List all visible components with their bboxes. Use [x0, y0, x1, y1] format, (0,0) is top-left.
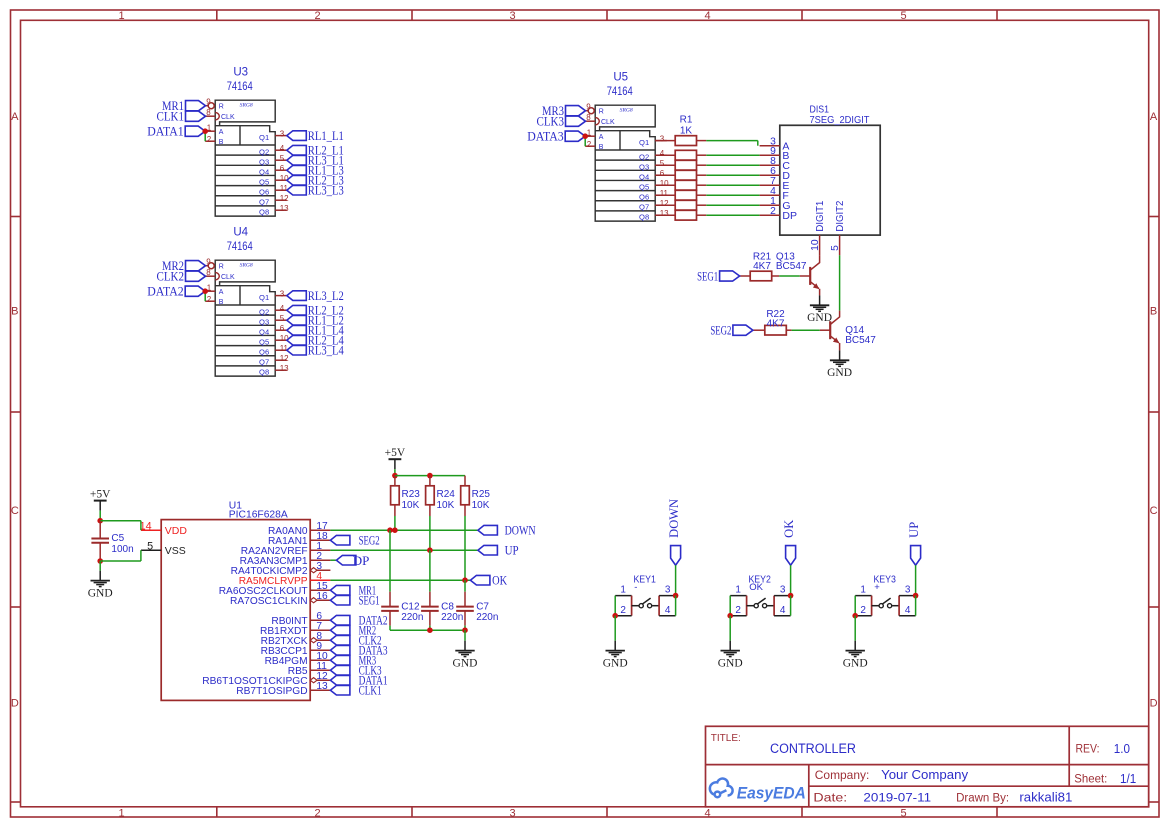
svg-text:C7: C7 — [476, 601, 489, 612]
svg-text:DP: DP — [353, 553, 370, 568]
IC U1 PIC16F628A — [161, 501, 310, 701]
wire to GND — [464, 630, 466, 641]
display DIS1 7SEG_2DIGIT — [780, 103, 880, 235]
resistor R1 element 1 — [655, 136, 706, 146]
svg-text:SEG1: SEG1 — [359, 593, 380, 608]
svg-text:5: 5 — [280, 154, 285, 163]
junction KEY1 pin2 — [612, 613, 618, 619]
junction DATA3 — [582, 133, 588, 139]
net flag flag DATA2 (RB0) — [330, 613, 387, 628]
svg-text:U3: U3 — [233, 67, 248, 79]
svg-text:11: 11 — [280, 344, 289, 353]
wire R1-3 to DIS1 — [706, 164, 759, 166]
junction bottom C8 — [427, 627, 433, 633]
pin Q1 (3) — [259, 129, 287, 142]
ground GND (Q13 emitter) — [807, 295, 832, 324]
wire R1-2 to DIS1 — [706, 154, 759, 156]
pin Q2 (4) — [259, 144, 287, 157]
svg-text:3: 3 — [780, 584, 786, 595]
svg-text:GND: GND — [603, 657, 628, 669]
capacitor C7 220n — [456, 592, 498, 626]
svg-text:A: A — [599, 134, 604, 141]
svg-text:CONTROLLER: CONTROLLER — [770, 741, 856, 756]
svg-text:3: 3 — [905, 584, 911, 595]
svg-text:9: 9 — [206, 258, 211, 267]
resistor R1 element 5 — [655, 180, 706, 190]
svg-text:-: - — [634, 582, 637, 593]
resistor R1 element 4 — [655, 170, 706, 180]
junction +5V/C5 — [97, 518, 103, 524]
net flag flag RL3_L1 — [287, 153, 344, 168]
svg-text:Q6: Q6 — [259, 188, 269, 197]
wire KEY3 pin1-pin2 — [854, 596, 856, 616]
svg-text:5: 5 — [900, 807, 906, 819]
svg-text:7SEG_2DIGIT: 7SEG_2DIGIT — [810, 114, 871, 126]
svg-text:CLK3: CLK3 — [537, 114, 565, 129]
svg-text:Q4: Q4 — [639, 173, 649, 182]
wire DIGIT2 to Q14 — [839, 255, 841, 310]
IC U5 74164 — [585, 72, 655, 221]
svg-text:C: C — [1150, 505, 1158, 517]
svg-text:R23: R23 — [402, 489, 421, 500]
net flag flag DATA1 — [147, 124, 205, 139]
wire R25 to OK row — [464, 516, 466, 580]
wire +5V to VDD node — [99, 511, 101, 521]
svg-text:1.0: 1.0 — [1114, 742, 1130, 756]
pin DIS1 C (8) — [760, 156, 791, 172]
resistor R1 element 2 — [655, 150, 706, 160]
svg-text:rakkali81: rakkali81 — [1019, 791, 1072, 805]
svg-text:4: 4 — [905, 605, 911, 616]
svg-text:Q6: Q6 — [639, 193, 649, 202]
svg-text:SEG1: SEG1 — [697, 269, 718, 284]
svg-text:D: D — [1150, 698, 1158, 710]
EasyEDA logo — [710, 779, 806, 803]
resistor R23 10K — [391, 476, 421, 516]
svg-text:DOWN: DOWN — [505, 523, 536, 538]
svg-text:+5V: +5V — [90, 488, 111, 500]
net flag flag RL2_L2 — [287, 303, 344, 318]
wire KEY2 pin3-pin4 — [790, 596, 792, 616]
net flag flag SEG1 (RA7) — [330, 593, 379, 608]
wire +5V down — [394, 469, 396, 475]
junction R23 column — [392, 527, 398, 533]
svg-text:R: R — [219, 264, 224, 271]
svg-text:13: 13 — [316, 681, 328, 692]
svg-text:Q7: Q7 — [639, 203, 649, 212]
svg-text:DOWN: DOWN — [667, 499, 681, 538]
wire DOWN flag to KEY1 — [675, 565, 677, 595]
svg-text:A: A — [11, 111, 19, 123]
svg-text:CLK2: CLK2 — [157, 269, 185, 284]
svg-text:10: 10 — [810, 239, 821, 251]
ground GND (C5) — [88, 571, 113, 600]
net flag flag RL2_L3 — [287, 173, 344, 188]
junction R24/UP — [427, 547, 433, 553]
svg-text:4K7: 4K7 — [753, 261, 771, 272]
net flag flag RL3_L4 — [287, 343, 344, 358]
wire C12 to bottom rail — [389, 626, 391, 631]
svg-text:Q5: Q5 — [639, 183, 649, 192]
svg-text:2: 2 — [770, 206, 776, 217]
svg-text:1: 1 — [735, 584, 741, 595]
wire C8 to bottom rail — [429, 626, 431, 631]
svg-text:1: 1 — [860, 584, 866, 595]
capacitor C5 100n — [91, 521, 133, 561]
pin DIS1 D (6) — [760, 166, 791, 182]
junction DATA2 — [202, 288, 208, 294]
svg-text:12: 12 — [660, 199, 669, 208]
svg-text:Company:: Company: — [815, 769, 870, 782]
svg-text:R1: R1 — [680, 115, 693, 126]
net flag flag SEG1 — [697, 269, 740, 284]
svg-text:4: 4 — [280, 144, 285, 153]
svg-text:10K: 10K — [472, 500, 490, 511]
pin Q7 (12) — [259, 354, 289, 367]
resistor R22 4K7 — [753, 309, 792, 335]
svg-text:GND: GND — [807, 312, 832, 324]
wire R1-8 to DIS1 — [706, 214, 759, 216]
svg-text:R: R — [219, 104, 224, 111]
wire KEY1 to GND — [614, 616, 616, 641]
wire node to VSS — [100, 560, 141, 562]
pin U1 RA1AN1 (18) — [268, 531, 330, 547]
svg-text:2: 2 — [207, 295, 212, 304]
junction +5V rail — [392, 473, 398, 479]
svg-text:13: 13 — [280, 364, 289, 373]
svg-text:Q2: Q2 — [259, 148, 269, 157]
svg-text:3: 3 — [509, 10, 515, 22]
svg-text:B: B — [219, 139, 224, 146]
svg-text:1: 1 — [620, 584, 626, 595]
pin Q1 (3) — [639, 134, 667, 147]
wire C12 column — [389, 530, 391, 592]
switch KEY1 — [615, 573, 675, 616]
svg-text:13: 13 — [280, 204, 289, 213]
svg-text:GND: GND — [88, 587, 113, 599]
svg-text:TITLE:: TITLE: — [711, 732, 741, 744]
wire KEY3 pin3-pin4 — [915, 596, 917, 616]
svg-text:C5: C5 — [111, 533, 124, 544]
net flag flag CLK3 — [537, 114, 586, 129]
pin U1 RB2TXCK (8) — [261, 631, 331, 647]
pin Q5 (10) — [259, 174, 289, 187]
svg-text:12: 12 — [280, 194, 289, 203]
svg-text:Sheet:: Sheet: — [1074, 772, 1107, 786]
svg-text:B: B — [219, 299, 224, 306]
net flag flag DOWN (RA0) — [478, 523, 536, 538]
svg-text:Q8: Q8 — [259, 208, 269, 217]
net flag flag DOWN (over KEY1) — [667, 499, 681, 565]
ground GND (KEY3) — [843, 641, 868, 670]
pin U1 RB3CCP1 (9) — [261, 641, 331, 657]
pin U1 RB0INT (6) — [271, 611, 330, 627]
switch KEY3 — [855, 573, 915, 616]
pin U1 RA5MCLRVPP (4) — [239, 571, 331, 587]
svg-text:8: 8 — [206, 108, 211, 117]
wire R1-6 to DIS1 — [706, 194, 759, 196]
svg-text:REV:: REV: — [1076, 743, 1100, 756]
wire R24 to UP row — [429, 516, 431, 550]
svg-text:12: 12 — [280, 354, 289, 363]
svg-text:74164: 74164 — [607, 86, 633, 98]
wire KEY3 to GND — [854, 616, 856, 641]
pin U1 RA0AN0 (17) — [268, 521, 330, 537]
transistor Q14 BC547 — [820, 311, 876, 351]
pin Q5 (10) — [259, 334, 289, 347]
pin Q8 (13) — [639, 209, 669, 222]
svg-text:4K7: 4K7 — [767, 318, 785, 329]
pin U1 RB4PGM (10) — [265, 651, 331, 667]
wire SEG2-Q14 base — [792, 329, 820, 331]
svg-text:8: 8 — [206, 268, 211, 277]
pin DIS1 DIGIT2 (5) — [830, 200, 846, 255]
pin Q4 (6) — [639, 169, 667, 182]
svg-text:Your Company: Your Company — [881, 768, 969, 782]
svg-text:3: 3 — [280, 129, 285, 138]
net flag flag CLK2 — [157, 269, 206, 284]
ground GND (Q14 emitter) — [827, 350, 852, 379]
svg-text:Q2: Q2 — [639, 153, 649, 162]
svg-text:6: 6 — [280, 164, 285, 173]
svg-text:4: 4 — [665, 605, 671, 616]
junction KEY2 pin2 — [727, 613, 733, 619]
IC U4 74164 — [205, 227, 275, 376]
net flag flag RL1_L2 — [287, 313, 344, 328]
svg-text:1: 1 — [118, 10, 124, 22]
svg-text:Q4: Q4 — [259, 168, 269, 177]
svg-text:2019-07-11: 2019-07-11 — [863, 791, 931, 805]
svg-text:BC547: BC547 — [845, 335, 876, 346]
svg-text:RL3_L3: RL3_L3 — [308, 183, 344, 198]
pin U1 RA7OSC1CLKIN (16) — [230, 591, 330, 607]
pin DIS1 F (4) — [760, 186, 789, 202]
net flag flag DATA2 — [147, 284, 205, 299]
pin DIS1 G (1) — [760, 196, 791, 212]
IC U3 74164 — [205, 67, 275, 216]
svg-text:SRG8: SRG8 — [240, 102, 253, 108]
svg-text:Q3: Q3 — [639, 163, 649, 172]
svg-text:RL3_L2: RL3_L2 — [308, 288, 344, 303]
svg-text:3: 3 — [665, 584, 671, 595]
svg-text:Q7: Q7 — [259, 198, 269, 207]
pin DIS1 B (9) — [760, 146, 790, 162]
pin DIS1 DIGIT1 (10) — [810, 200, 826, 255]
svg-text:Q6: Q6 — [259, 348, 269, 357]
svg-text:SRG8: SRG8 — [620, 107, 633, 113]
svg-text:2: 2 — [314, 807, 320, 819]
svg-text:OK: OK — [492, 573, 507, 588]
svg-text:4: 4 — [780, 605, 786, 616]
svg-text:3: 3 — [509, 807, 515, 819]
svg-text:R24: R24 — [437, 489, 456, 500]
resistor R1 element 7 — [655, 200, 706, 210]
resistor R24 10K — [426, 476, 456, 516]
svg-text:Q1: Q1 — [639, 138, 649, 147]
net flag flag CLK1 — [157, 109, 206, 124]
svg-text:Q1: Q1 — [259, 293, 269, 302]
pin U1 RB7T1OSIPGD (13) — [236, 681, 330, 697]
power flag +5V (R23) — [385, 447, 406, 469]
pin DIS1 DP (2) — [760, 206, 797, 222]
svg-text:CLK: CLK — [601, 119, 615, 126]
wire OK flag to KEY2 — [790, 565, 792, 595]
net flag flag SEG2 (RA1) — [330, 533, 379, 548]
resistor R1 element 8 — [655, 210, 706, 220]
pin DIS1 A (3) — [760, 137, 790, 153]
net flag flag MR1 — [162, 98, 206, 113]
wire bottom rail — [390, 629, 465, 631]
svg-text:2: 2 — [620, 605, 626, 616]
wire DATA1 A-B — [204, 131, 206, 141]
svg-text:+5V: +5V — [385, 447, 406, 459]
svg-text:Q1: Q1 — [259, 133, 269, 142]
svg-text:Q2: Q2 — [259, 308, 269, 317]
pin Q3 (5) — [259, 154, 287, 167]
pin U1 RB1RXDT (7) — [260, 621, 330, 637]
svg-text:220n: 220n — [476, 612, 498, 623]
svg-text:2: 2 — [587, 140, 592, 149]
pin U1 VSS (5) — [141, 540, 186, 556]
net flag flag UP (over KEY3) — [907, 522, 921, 565]
junction rail R24 — [427, 473, 433, 479]
junction KEY3 pin3 — [913, 593, 919, 599]
pin U1 RB5 (11) — [288, 661, 331, 677]
net flag flag RL1_L3 — [287, 163, 344, 178]
svg-text:DIGIT1: DIGIT1 — [814, 200, 826, 231]
svg-text:CLK: CLK — [221, 274, 235, 281]
svg-text:Q8: Q8 — [639, 213, 649, 222]
wire R1-5 to DIS1 — [706, 184, 759, 186]
svg-text:3: 3 — [660, 134, 665, 143]
net flag flag MR2 (RB1) — [330, 623, 376, 638]
junction KEY2 pin3 — [788, 593, 794, 599]
svg-text:RL3_L4: RL3_L4 — [308, 343, 344, 358]
pin U1 VDD (14) — [140, 521, 188, 537]
svg-text:UP: UP — [505, 543, 519, 558]
svg-text:CLK1: CLK1 — [359, 683, 382, 698]
svg-text:RA7OSC1CLKIN: RA7OSC1CLKIN — [230, 596, 308, 607]
junction C12 column — [387, 527, 393, 533]
svg-text:SEG2: SEG2 — [710, 323, 731, 338]
pin Q6 (11) — [259, 344, 288, 357]
svg-text:1/1: 1/1 — [1120, 772, 1136, 786]
svg-text:4: 4 — [704, 807, 710, 819]
net flag flag UP (RA2) — [478, 543, 519, 558]
net flag flag SEG2 (R22) — [710, 323, 753, 338]
net flag flag DATA3 — [527, 129, 585, 144]
svg-text:GND: GND — [827, 367, 852, 379]
pin Q6 (11) — [259, 184, 288, 197]
svg-text:OK: OK — [782, 520, 796, 538]
svg-text:2: 2 — [207, 135, 212, 144]
svg-text:74164: 74164 — [227, 81, 253, 93]
svg-text:SEG2: SEG2 — [359, 533, 380, 548]
net flag flag DATA1 (RB6) — [330, 673, 387, 688]
pin Q2 (4) — [259, 304, 287, 317]
svg-text:16: 16 — [316, 591, 328, 602]
svg-text:CLK1: CLK1 — [157, 109, 185, 124]
svg-text:OK: OK — [749, 582, 763, 593]
net flag flag RL2_L1 — [287, 143, 344, 158]
pin Q4 (6) — [259, 324, 287, 337]
svg-text:B: B — [11, 306, 18, 318]
svg-text:4: 4 — [660, 149, 665, 158]
svg-text:R: R — [599, 109, 604, 116]
wire KEY1 pin1-pin2 — [614, 596, 616, 616]
svg-text:5: 5 — [660, 159, 665, 168]
junction bottom C7 — [462, 627, 468, 633]
net flag flag CLK1 (RB7) — [330, 683, 381, 698]
wire RA2 to UP — [330, 549, 478, 551]
pin Q8 (13) — [259, 204, 289, 217]
junction DATA1 — [202, 128, 208, 134]
resistor R25 10K — [461, 476, 491, 516]
pin Q3 (5) — [639, 159, 667, 172]
svg-text:Q8: Q8 — [259, 368, 269, 377]
svg-text:10: 10 — [660, 179, 669, 188]
pin U1 RA2AN2VREF (1) — [241, 541, 331, 557]
wire C7 to bottom rail — [464, 626, 466, 631]
svg-text:B: B — [1150, 306, 1157, 318]
svg-text:2: 2 — [860, 605, 866, 616]
svg-text:SRG8: SRG8 — [240, 262, 253, 268]
junction R25/OK — [462, 577, 468, 583]
wire R23 to DOWN row — [394, 516, 396, 530]
svg-text:VSS: VSS — [165, 545, 186, 557]
svg-text:220n: 220n — [441, 612, 463, 623]
svg-text:B: B — [599, 144, 604, 151]
pin Q8 (13) — [259, 364, 289, 377]
svg-text:EasyEDA: EasyEDA — [737, 784, 806, 802]
wire SEG1-Q13 base — [779, 275, 800, 277]
wire R1-7 to DIS1 — [706, 204, 759, 206]
svg-text:A: A — [1150, 111, 1158, 123]
wire node to VDD — [100, 520, 141, 522]
pin U1 RA6OSC2CLKOUT (15) — [219, 581, 331, 597]
svg-text:2: 2 — [314, 10, 320, 22]
wire +5V rail — [395, 475, 465, 477]
pin U1 RA3AN3CMP1 (2) — [240, 551, 331, 567]
svg-text:GND: GND — [843, 657, 868, 669]
capacitor C8 220n — [421, 592, 463, 626]
svg-text:5: 5 — [280, 314, 285, 323]
power flag +5V (C5) — [90, 488, 111, 510]
svg-text:DATA3: DATA3 — [527, 129, 564, 144]
net flag DP — [336, 553, 369, 568]
svg-text:4: 4 — [704, 10, 710, 22]
svg-text:Drawn By:: Drawn By: — [956, 793, 1009, 805]
svg-text:Q3: Q3 — [259, 158, 269, 167]
pin Q4 (6) — [259, 164, 287, 177]
net flag flag OK (over KEY2) — [782, 520, 796, 565]
svg-text:10K: 10K — [437, 500, 455, 511]
svg-text:6: 6 — [280, 324, 285, 333]
svg-text:C12: C12 — [401, 601, 420, 612]
svg-text:CLK: CLK — [221, 114, 235, 121]
svg-text:5: 5 — [830, 245, 841, 251]
resistor R21 4K7 — [740, 251, 780, 281]
wire R1-1 to DIS1 — [706, 140, 758, 142]
svg-text:11: 11 — [660, 189, 669, 198]
title block — [706, 726, 1149, 807]
svg-text:R25: R25 — [472, 489, 491, 500]
net flag flag RL2_L4 — [287, 333, 344, 348]
svg-text:5: 5 — [147, 540, 153, 552]
svg-text:Q4: Q4 — [259, 328, 269, 337]
net flag flag RL3_L2 — [287, 288, 344, 303]
net flag flag CLK3 (RB5) — [330, 663, 381, 678]
